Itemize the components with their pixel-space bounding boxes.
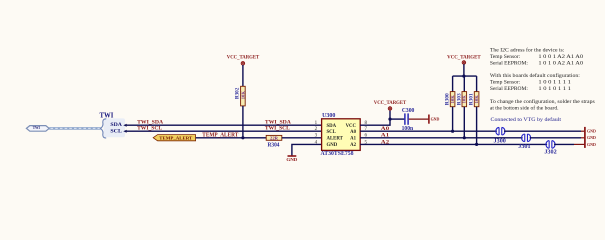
svg-text:TEMP_ALERT: TEMP_ALERT <box>159 136 192 141</box>
svg-text:SCL: SCL <box>327 130 336 135</box>
svg-text:U300: U300 <box>322 113 335 119</box>
svg-text:ALERT: ALERT <box>327 137 344 142</box>
svg-text:VCC: VCC <box>346 124 357 129</box>
svg-text:R303: R303 <box>456 93 462 105</box>
svg-text:Temp Sensor:: Temp Sensor: <box>490 80 521 86</box>
svg-text:10K: 10K <box>462 95 467 104</box>
ground GND (right of C300) <box>429 115 440 124</box>
ground bar (right edge) <box>584 127 586 148</box>
svg-text:1 0 0 1 1 1 1: 1 0 0 1 1 1 1 <box>538 80 571 86</box>
wire J301 to GND <box>530 137 581 139</box>
svg-text:A0: A0 <box>350 130 356 135</box>
wire A1 <box>360 137 522 139</box>
svg-text:SDA: SDA <box>327 124 337 129</box>
power port VCC_TARGET (above pin8) <box>374 100 407 110</box>
harness entry arrow SCL <box>123 130 126 133</box>
resistor R304 <box>266 135 282 148</box>
svg-text:Serial EEPROM:: Serial EEPROM: <box>490 61 529 67</box>
svg-text:at the bottom side of the boar: at the bottom side of the board. <box>490 104 559 111</box>
svg-text:C300: C300 <box>402 108 415 114</box>
wire C300 to GND <box>409 118 429 120</box>
note text block <box>490 46 595 111</box>
resistor R303 <box>456 92 466 107</box>
IC U300 AT30TSE758 <box>321 113 361 157</box>
svg-text:The I2C adress for the device: The I2C adress for the device is: <box>490 46 565 53</box>
svg-text:AT30TSE758: AT30TSE758 <box>321 151 354 157</box>
svg-text:SDA: SDA <box>110 122 122 128</box>
svg-text:10K: 10K <box>240 91 245 100</box>
svg-text:Connected to VTG by default: Connected to VTG by default <box>491 116 562 123</box>
svg-text:1 0 0 1 A2 A1 A0: 1 0 0 1 A2 A1 A0 <box>538 54 583 60</box>
svg-text:A1: A1 <box>381 133 390 139</box>
svg-text:A1: A1 <box>350 137 356 142</box>
wire pin4 GND <box>292 144 322 155</box>
svg-text:1 0 1 0 A2 A1 A0: 1 0 1 0 A2 A1 A0 <box>538 61 583 67</box>
wire J302 to GND <box>554 143 574 145</box>
svg-text:22R: 22R <box>270 135 279 140</box>
wire J300 to GND <box>504 130 581 132</box>
svg-text:Serial EEPROM:: Serial EEPROM: <box>490 86 529 92</box>
junction R302/TEMP_ALERT <box>241 136 244 139</box>
svg-text:TWI_SDA: TWI_SDA <box>137 120 163 126</box>
wire TWI_SCL <box>127 130 322 132</box>
svg-text:R302: R302 <box>235 87 241 99</box>
svg-text:R301: R301 <box>469 93 475 105</box>
jumper J300 <box>494 127 506 144</box>
svg-text:TEMP_ALERT: TEMP_ALERT <box>202 133 238 139</box>
svg-text:R300: R300 <box>445 93 451 105</box>
jumper J301 <box>518 134 530 150</box>
resistor R301 <box>469 92 479 107</box>
wire VCC to C300 <box>390 118 404 120</box>
svg-text:TWI_SCL: TWI_SCL <box>137 126 162 132</box>
wire R303 to A1 <box>463 107 465 138</box>
capacitor C300 <box>402 108 415 132</box>
wire pin8 VCC <box>360 111 390 126</box>
jumper J302 <box>544 141 556 156</box>
resistor R300 <box>445 92 455 107</box>
svg-text:A0: A0 <box>381 126 390 132</box>
svg-text:10K: 10K <box>450 95 455 104</box>
sheet background <box>0 0 605 182</box>
wire tee to R303 <box>463 76 465 92</box>
svg-text:A2: A2 <box>381 139 390 145</box>
harness connector TWI <box>100 112 126 138</box>
wire VCC tee <box>463 64 465 76</box>
svg-text:VCC_TARGET: VCC_TARGET <box>374 100 407 106</box>
harness cable TWI <box>49 127 100 130</box>
wire VCC to R302 <box>242 65 244 86</box>
junction R301/A2 <box>475 143 478 146</box>
svg-text:J301: J301 <box>518 144 530 150</box>
junction VCC tee <box>462 75 465 78</box>
wire A2 <box>360 143 547 145</box>
junction R300/A0 <box>451 130 454 133</box>
svg-text:A2: A2 <box>350 143 356 148</box>
svg-text:Temp Sensor:: Temp Sensor: <box>490 54 521 60</box>
wire TEMP_ALERT (flag to R304) <box>196 137 267 139</box>
wire tee to R301 <box>476 76 478 92</box>
ground GND (below U300) <box>286 156 298 162</box>
wire R301 to A2 <box>476 107 478 145</box>
svg-text:VCC_TARGET: VCC_TARGET <box>447 54 481 60</box>
svg-text:TWI: TWI <box>33 125 40 130</box>
svg-text:GND: GND <box>286 157 298 162</box>
harness entry arrow SDA <box>123 124 126 127</box>
svg-text:VCC_TARGET: VCC_TARGET <box>227 55 260 61</box>
svg-text:R304: R304 <box>268 142 280 148</box>
wire R304 to pin3 <box>282 137 322 139</box>
svg-text:GND: GND <box>587 135 596 140</box>
svg-text:GND: GND <box>587 142 596 147</box>
svg-text:GND: GND <box>431 117 440 122</box>
port TEMP_ALERT flag <box>153 135 195 141</box>
wire TWI_SDA <box>127 124 322 126</box>
wire R302 to ALERT net <box>242 106 244 138</box>
svg-text:With this boards default confi: With this boards default configuration: <box>490 72 580 79</box>
wire A0 <box>360 130 497 132</box>
port TWI <box>26 125 49 131</box>
svg-text:1 0 1 0 1 1 1: 1 0 1 0 1 1 1 <box>538 86 571 92</box>
svg-text:GND: GND <box>587 129 596 134</box>
junction R303/A1 <box>463 136 466 139</box>
svg-text:TWI: TWI <box>100 112 114 119</box>
power port VCC_TARGET (above resistor tree) <box>447 54 481 64</box>
svg-text:TWI_SDA: TWI_SDA <box>265 120 291 126</box>
svg-text:SCL: SCL <box>110 128 122 134</box>
junction VCC/C300 <box>388 118 391 121</box>
svg-text:GND: GND <box>327 143 338 148</box>
svg-text:J302: J302 <box>544 149 556 155</box>
svg-text:To change the configuration, s: To change the configuration, solder the … <box>490 98 595 105</box>
svg-text:J300: J300 <box>494 138 506 144</box>
resistor R302 <box>235 86 246 106</box>
wire tee to R300 <box>452 76 454 92</box>
power port VCC_TARGET (left, above R302) <box>227 55 260 65</box>
wire R300 to A0 <box>452 107 454 132</box>
svg-text:10K: 10K <box>474 95 479 104</box>
svg-text:TWI_SCL: TWI_SCL <box>265 126 290 132</box>
